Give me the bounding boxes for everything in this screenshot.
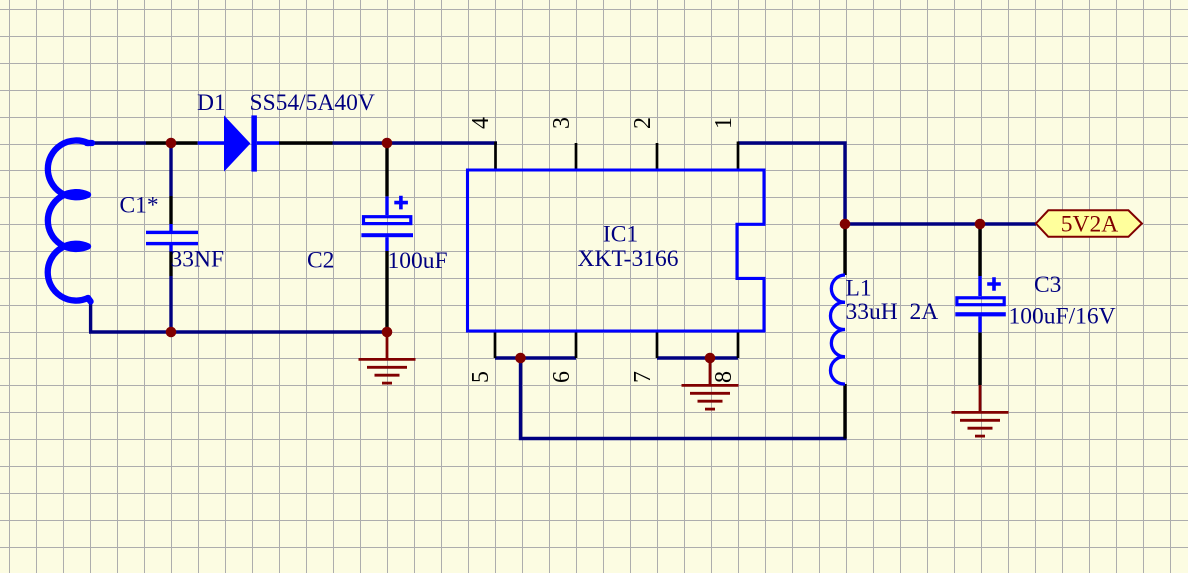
svg-text:33NF: 33NF <box>171 247 225 273</box>
wire: C3 top lead from junction (black) <box>978 224 981 276</box>
wire: C1 top lead lower segment (black) <box>169 196 172 224</box>
svg-text:1: 1 <box>711 117 737 129</box>
capacitor C2 (polarized) <box>361 196 413 251</box>
junction: output rail C3 node <box>975 219 986 230</box>
wire: L1 bottom to bottom rail (black) <box>843 384 846 439</box>
junction: bottom rail C1 node <box>166 327 177 338</box>
wire: C1 bottom lead to bottom rail (navy) <box>169 276 172 332</box>
svg-text:7: 7 <box>630 371 656 383</box>
svg-text:C1*: C1* <box>120 193 159 219</box>
inductor L1 <box>830 275 845 384</box>
wire: pin7 to pin8 (navy) <box>657 356 738 359</box>
svg-text:C2: C2 <box>307 248 334 274</box>
svg-text:33uH 2A: 33uH 2A <box>846 299 939 325</box>
IC1 pin 3 stub <box>575 143 578 170</box>
svg-text:IC1: IC1 <box>603 222 638 248</box>
IC1 pin 4 stub <box>494 142 497 171</box>
inductor (receiver coil) <box>48 140 92 301</box>
svg-text:6: 6 <box>549 371 575 383</box>
svg-text:100uF/16V: 100uF/16V <box>1009 304 1116 330</box>
ground (below pin 8) <box>682 358 739 409</box>
capacitor C1 <box>146 224 198 252</box>
ground (below C2) <box>359 332 416 383</box>
svg-text:3: 3 <box>549 117 575 129</box>
wire: output rail junction L1 to junction C3 to flag (navy) <box>845 222 1036 225</box>
wire: C1 top lead upper segment (navy) <box>169 143 172 196</box>
wire: diode cathode to node B (black) <box>279 141 333 144</box>
svg-text:2: 2 <box>630 117 656 129</box>
wire: C1 bottom lead upper segment (black) <box>169 251 172 276</box>
wire: coil top to junction A (navy) <box>91 141 146 144</box>
wire: C3 bottom lead to ground (black) <box>978 332 981 385</box>
svg-text:C3: C3 <box>1034 272 1061 298</box>
IC1 pin 6 stub <box>575 331 578 358</box>
wire: C2 bottom lead to ground junction (black) <box>385 251 388 332</box>
wire: junction A to diode anode (black) <box>146 141 198 144</box>
IC1 pin 7 stub <box>656 331 659 358</box>
svg-text:XKT-3166: XKT-3166 <box>578 246 679 272</box>
IC1 pin 2 stub <box>656 143 659 170</box>
wire: C2 top lead from junction (black) <box>385 143 388 196</box>
IC IC1 body (XKT-3166) <box>468 170 765 331</box>
junction: C2 top node <box>382 138 393 149</box>
junction: coil/diode node <box>166 138 177 149</box>
svg-text:100uF: 100uF <box>388 248 448 274</box>
wire: node B through junction C2-top to IC pin4 corner (navy) <box>333 141 498 144</box>
svg-text:D1: D1 <box>197 90 226 116</box>
svg-text:8: 8 <box>711 371 737 383</box>
IC1 pin 5 stub <box>494 331 497 358</box>
wire: pin5 to pin6 (navy) <box>495 356 576 359</box>
ground (below C3) <box>952 385 1009 436</box>
IC1 pin 8 stub <box>737 331 740 358</box>
wire: right rail junction down to L1 top (black) <box>843 224 846 275</box>
wire: IC pin1 corner to right rail corner (navy) <box>738 143 845 224</box>
svg-text:L1: L1 <box>846 276 872 302</box>
wire: junction pin5-6 down and across bottom to L1 bottom (navy) <box>521 358 847 439</box>
wire: coil bottom lead down (navy) <box>89 302 92 332</box>
diode D1 <box>198 115 279 171</box>
junction: pin7-8 ground node <box>705 353 716 364</box>
IC1 pin 1 stub <box>737 142 740 171</box>
svg-text:5V2A: 5V2A <box>1061 212 1118 238</box>
svg-text:4: 4 <box>468 117 494 129</box>
svg-text:5: 5 <box>468 371 494 383</box>
junction: pin5-6 node <box>515 353 526 364</box>
capacitor C3 (polarized) <box>955 276 1006 332</box>
wire: bottom rail coil to C2 ground junction (navy) <box>89 330 387 333</box>
junction: output rail L1 node <box>840 219 851 230</box>
junction: bottom rail C2/ground node <box>382 327 393 338</box>
power port flag 5V2A <box>1036 210 1142 237</box>
svg-text:SS54/5A40V: SS54/5A40V <box>250 90 375 116</box>
